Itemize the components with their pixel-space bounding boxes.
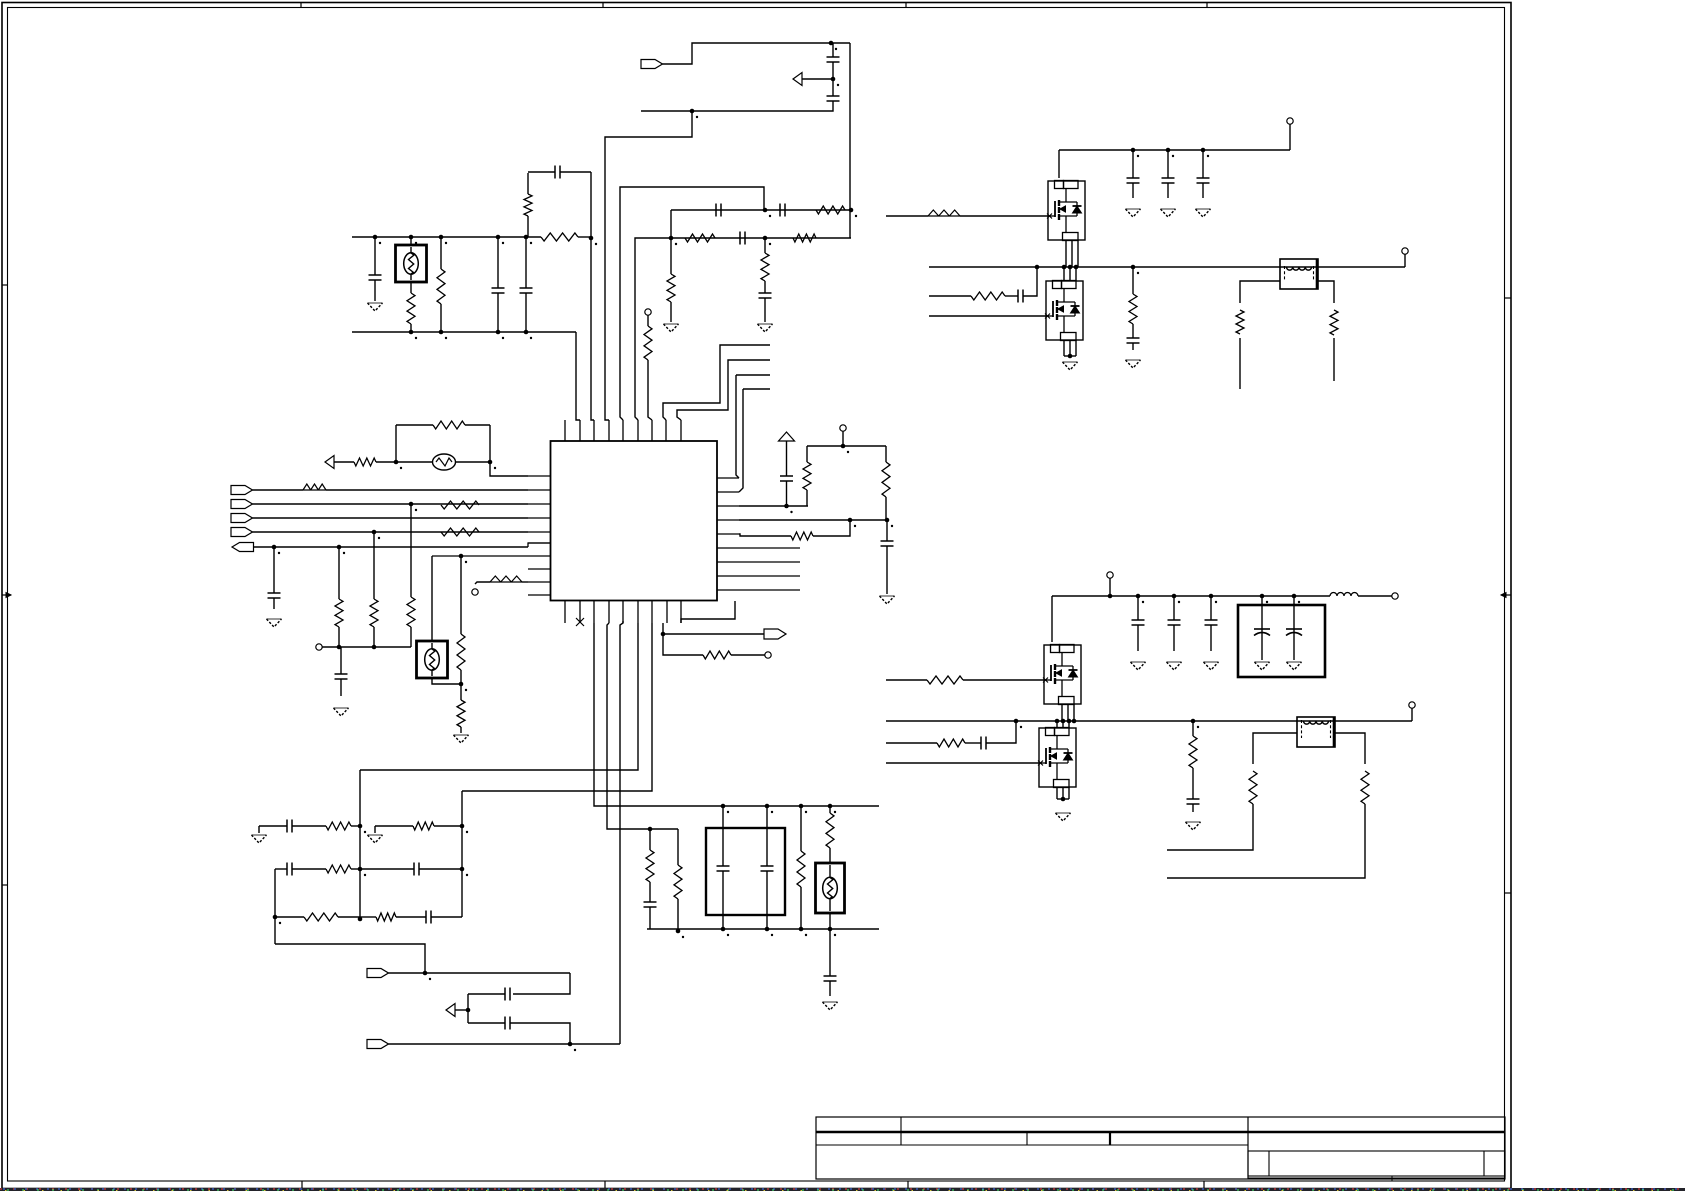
oscillator Y2 bbox=[396, 461, 432, 463]
capacitor C-f6 bbox=[396, 916, 426, 918]
ground dropper x765 bbox=[758, 323, 773, 325]
capacitor C-d2 bbox=[1187, 798, 1200, 800]
resistor R-bus bbox=[541, 233, 578, 241]
t1 secondary right bbox=[1318, 281, 1334, 303]
terminal vin2 bbox=[1107, 572, 1113, 578]
wire stair 3 bbox=[736, 374, 770, 376]
wire to resistor terminal bbox=[663, 634, 703, 655]
capacitor C-c1a with ground bbox=[1132, 150, 1134, 178]
wire row1 upper bbox=[671, 209, 851, 211]
crystal Y3 bbox=[431, 556, 433, 641]
wire mosfet3 source legs bbox=[1061, 704, 1063, 721]
wire stair 4 bbox=[743, 388, 770, 390]
resistor R-f2 bbox=[375, 825, 413, 827]
bead FB-g1 bbox=[928, 210, 960, 216]
wire ic pin to cap node bbox=[739, 505, 808, 507]
wire flag1 to ic bbox=[326, 489, 528, 491]
junction bus nodes bbox=[373, 235, 378, 240]
dropper x671 resistor R3 bbox=[670, 210, 672, 274]
title block inner box bbox=[1248, 1151, 1505, 1176]
junction row1 bbox=[763, 208, 768, 213]
wire ic pin to right bus bbox=[462, 623, 652, 791]
ic U1 top pin stubs bbox=[565, 420, 681, 441]
transformer T2 bbox=[1297, 717, 1335, 747]
junction rail y929 nodes bbox=[721, 927, 726, 932]
wire row2 bbox=[635, 238, 851, 420]
ground R-y3b bbox=[454, 734, 469, 736]
connector flag IN2 bbox=[231, 500, 253, 509]
resistor R-f6 bbox=[360, 916, 376, 918]
resistor R-ob bbox=[703, 651, 731, 659]
ground C-l5 bbox=[334, 707, 349, 709]
capacitor C-c1c with ground bbox=[1202, 150, 1204, 178]
capacitor C-b2 bbox=[497, 237, 499, 288]
wire flag bot2 bbox=[389, 1043, 621, 1045]
mosfet Q3 high side bbox=[1044, 645, 1081, 704]
resistor R-s2 bbox=[677, 829, 679, 865]
frame zone tick marks top bbox=[300, 2, 302, 8]
wire ic pin to crystal node bbox=[432, 555, 528, 557]
title block row line left bbox=[816, 1144, 1248, 1146]
capacitor C-m3 below rail bbox=[829, 929, 831, 976]
title block vertical divider 3 heavy bbox=[1109, 1132, 1111, 1145]
terminal R-t1 bbox=[472, 589, 478, 595]
frame zone tick marks bottom bbox=[301, 1181, 303, 1189]
boot RC conv1: resistor R-bt1 bbox=[929, 295, 971, 297]
gate wire Q2 bbox=[929, 315, 1046, 317]
junction node top rail bbox=[829, 41, 834, 46]
junction flag2 dropper bbox=[409, 502, 414, 507]
terminal vcc rail bbox=[840, 425, 846, 431]
wire osc to ic pin bbox=[490, 425, 528, 476]
rail y929 bbox=[647, 928, 879, 930]
wire mosfet4 source to ground bbox=[1056, 787, 1058, 799]
junction conv1 rail nodes bbox=[1131, 148, 1136, 153]
mosfet Q2 low side bbox=[1046, 281, 1083, 340]
resistor R-b3 above bus bbox=[527, 216, 529, 237]
junction sw rail 2 pads bbox=[1014, 719, 1019, 724]
wire right divider drop bbox=[849, 43, 851, 238]
wire arrow to resistor bbox=[334, 461, 354, 463]
capacitor C-c2c with ground bbox=[1210, 596, 1212, 620]
resistor R-r1 bbox=[816, 206, 845, 214]
resistor R-vr1 bbox=[806, 446, 808, 462]
wire mosfet1 source legs bbox=[1065, 240, 1067, 267]
wire y187 feed bbox=[620, 187, 764, 420]
resistor R-t1l bbox=[1236, 310, 1244, 334]
resistor R-t1 bbox=[522, 581, 528, 583]
resistor R-vr3 bbox=[791, 532, 813, 540]
ground C-b1 bbox=[368, 302, 383, 304]
wire flag bot1 bbox=[389, 972, 571, 974]
wire below crystal bbox=[432, 678, 461, 684]
ground C-l1 bbox=[267, 618, 282, 620]
resistor R-f3 bbox=[326, 865, 351, 873]
capacitor C-c2b with ground bbox=[1173, 596, 1175, 620]
title block vertical divider 2 bbox=[1026, 1132, 1028, 1145]
gate wire Q3 bbox=[886, 679, 927, 681]
crystal Y1 bbox=[410, 237, 412, 245]
dropper conv2: resistor R-d2 bbox=[1192, 721, 1194, 736]
boot RC conv2: resistor R-bt2 bbox=[886, 742, 937, 744]
wire ic pin to rc pair bbox=[607, 623, 678, 829]
terminal vout2b bbox=[1409, 702, 1415, 708]
component box dual polarized caps bbox=[1238, 605, 1325, 677]
ground dropper x671 bbox=[664, 323, 679, 325]
wire stair 1 bbox=[663, 345, 770, 420]
terminal vout2a bbox=[1392, 593, 1398, 599]
resistor R-s1 bbox=[649, 829, 651, 850]
wire resistor to node bbox=[376, 461, 396, 463]
resistor R-t1r bbox=[1330, 310, 1338, 335]
wire flag4 to ic bbox=[253, 531, 529, 533]
wire bottom bus to ic pin x580 bbox=[576, 332, 580, 420]
title block vertical divider 1 bbox=[900, 1117, 902, 1145]
resistor R-l2 bbox=[338, 547, 340, 599]
crystal bus bottom bbox=[352, 331, 576, 333]
rail conv1 top bbox=[1059, 149, 1290, 151]
ic U1 bottom pin stubs bbox=[565, 601, 681, 624]
resistor R-vr2 bbox=[885, 446, 887, 462]
wire ic pin to bus bbox=[360, 623, 638, 770]
boot capacitor C-bt2 bbox=[965, 742, 981, 744]
capacitor C-p1 with ground bbox=[1261, 596, 1263, 660]
title block row line right bbox=[1248, 1150, 1505, 1152]
ground C-vr bbox=[880, 595, 895, 597]
gate wire Q1 bbox=[886, 215, 928, 217]
junction flag4 dropper bbox=[372, 530, 377, 535]
mosfet Q4 low side bbox=[1039, 728, 1076, 787]
resistor R-y3a bbox=[460, 556, 462, 634]
connector flag IN4 bbox=[231, 528, 253, 537]
filter left bus bbox=[274, 869, 276, 944]
terminal vin1 bbox=[1287, 118, 1293, 124]
crystal Y4 bbox=[816, 863, 845, 913]
sw rail conv2 bbox=[886, 720, 1335, 722]
wire to cap row1 bbox=[513, 973, 570, 994]
dropper x765 resistor R4 bbox=[764, 238, 766, 253]
connector flag IN1 bbox=[231, 486, 253, 495]
connector flag OUT5 bbox=[232, 543, 254, 552]
junction flag5 nodes bbox=[272, 545, 277, 550]
capacitor C-s1 bbox=[644, 901, 657, 903]
connector flag BOT2 bbox=[367, 1040, 389, 1049]
wire mosfet2 source to ground bbox=[1063, 340, 1065, 356]
junction row1 right bbox=[849, 208, 854, 213]
frame zone tick marks left bbox=[2, 284, 8, 286]
capacitor C-m1 bbox=[722, 806, 724, 866]
wire flag2 to ic bbox=[253, 503, 529, 505]
resistor R-osc2 feedback loop bbox=[395, 425, 397, 462]
wire ic pin long y520 bbox=[739, 519, 887, 521]
capacitor C-div1 bbox=[832, 43, 834, 57]
crystal bus top bbox=[352, 236, 541, 238]
ground mosfet4 bbox=[1056, 812, 1071, 814]
resistor R-l3 bbox=[373, 532, 375, 599]
wire rc to node bbox=[739, 534, 791, 536]
capacitor C-b1 with ground bbox=[374, 237, 376, 275]
frame zone tick marks right bbox=[1505, 297, 1511, 299]
rail y446 bbox=[807, 445, 886, 447]
junction row2 mid bbox=[763, 236, 768, 241]
resistor R-r2a bbox=[685, 234, 715, 242]
resistor R-in4 bbox=[441, 528, 479, 536]
title block inner box divider left bbox=[1268, 1151, 1270, 1176]
resistor R-r2b bbox=[793, 234, 816, 242]
capacitor C-div2 bbox=[827, 95, 840, 97]
capacitor C-bt2 bbox=[468, 1022, 505, 1024]
ic U1 left pin stubs bbox=[528, 476, 551, 595]
resistor R-b1 below crystal bbox=[410, 282, 412, 293]
connector flag BOT1 bbox=[367, 969, 389, 978]
resistor R-t2l bbox=[1249, 771, 1257, 804]
junction conv2 rail nodes bbox=[1108, 594, 1113, 599]
transformer T1 bbox=[1280, 259, 1318, 289]
wire cap mid node bbox=[832, 62, 834, 79]
title block bottom strip bbox=[1248, 1177, 1505, 1179]
resistor R-l4 bbox=[410, 504, 412, 597]
resistor R-f1 bbox=[326, 822, 351, 830]
wire rail to mosfet3 bbox=[1051, 596, 1053, 642]
wire bottom to ic pin x609 bbox=[605, 111, 692, 420]
resistor R-in2 bbox=[441, 501, 479, 509]
ground dropper conv1 bbox=[1126, 359, 1141, 361]
resistor R-m2 above crystal bbox=[829, 806, 831, 813]
terminal rail left bbox=[316, 644, 322, 650]
wire loop down to ic pin x594 bbox=[591, 172, 594, 420]
title block outline bbox=[816, 1117, 1505, 1179]
connector flag OUT-b bbox=[663, 633, 764, 635]
filter row1 right: ground bbox=[368, 834, 383, 836]
resistor R-t2r bbox=[1361, 771, 1369, 804]
capacitor C-r1a bbox=[715, 204, 717, 217]
terminal pullup R-pu bbox=[645, 309, 651, 315]
junction bottom bus nodes bbox=[409, 330, 414, 335]
filter row2: capacitor C-f3 bbox=[286, 863, 288, 876]
capacitor C-p2 with ground bbox=[1293, 596, 1295, 660]
capacitor C-l5 below rail bbox=[340, 647, 342, 674]
filter row1 left: ground bbox=[252, 834, 267, 836]
ic U1 right pin stubs bbox=[717, 478, 800, 590]
t2 secondary right bbox=[1335, 733, 1365, 764]
ic U1 body bbox=[551, 441, 718, 601]
title block heavy divider line bbox=[816, 1131, 1505, 1133]
rail conv2 top bbox=[1052, 595, 1330, 597]
ground dropper conv2 bbox=[1186, 821, 1201, 823]
t2 secondary left bbox=[1253, 733, 1297, 764]
resistor R-b2 bbox=[440, 237, 442, 269]
component box dual caps bbox=[706, 828, 785, 915]
capacitor C-b3 bbox=[525, 237, 527, 288]
scan noise strip bottom edge bbox=[0, 1188, 1685, 1191]
capacitor C-vcc bbox=[780, 475, 793, 477]
capacitor C-f4 bbox=[360, 868, 414, 870]
wire mosfet4 drain legs bbox=[1056, 721, 1058, 728]
capacitor C5 dropper bbox=[759, 292, 772, 294]
connector flag IN3 bbox=[231, 514, 253, 523]
wire crystal to rail bbox=[829, 913, 831, 929]
wire cap rows vertical bbox=[467, 994, 469, 1023]
junction bus right bbox=[589, 236, 594, 241]
wire rail to mosfet1 bbox=[1058, 150, 1060, 178]
junction divider bottom bbox=[690, 109, 695, 114]
terminal vout1 bbox=[1402, 248, 1408, 254]
wire left bus to flag1 node bbox=[275, 944, 425, 973]
power rail vcc arrow bbox=[779, 432, 795, 441]
capacitor C-c1b with ground bbox=[1167, 150, 1169, 178]
title block main vertical divider bbox=[1247, 1117, 1249, 1179]
no-connect X on bottom pin 1 bbox=[576, 618, 584, 626]
dropper conv1: resistor R-d1 bbox=[1132, 267, 1134, 294]
input arrow osc bbox=[325, 456, 334, 469]
capacitor C-c2a with ground bbox=[1137, 596, 1139, 620]
wire ic pin u-turn bbox=[681, 601, 735, 623]
filter right bus bbox=[461, 791, 463, 917]
sw rail conv1 bbox=[929, 266, 1318, 268]
junction crystal node bbox=[459, 554, 464, 559]
junction row2 left bbox=[669, 236, 674, 241]
ground mosfet2 bbox=[1063, 361, 1078, 363]
wire bot2 to ic pin bbox=[620, 621, 623, 1044]
title block inner box divider right bbox=[1483, 1151, 1485, 1176]
input arrow net-a bbox=[793, 73, 802, 86]
resistor R-y3b bbox=[457, 700, 465, 727]
capacitor C-r1b bbox=[779, 204, 781, 217]
capacitor C-d1 bbox=[1127, 337, 1140, 339]
filter center bus bbox=[359, 770, 361, 919]
wire t2 to terminal bbox=[1335, 720, 1412, 722]
mosfet Q1 high side bbox=[1048, 181, 1085, 240]
wire flag3 to ic bbox=[253, 517, 529, 519]
gate wire Q4 bbox=[886, 762, 1039, 764]
capacitor C-r2 bbox=[739, 232, 741, 245]
capacitor C-l1 with ground bbox=[273, 547, 275, 593]
terminal R-ob bbox=[765, 652, 771, 658]
junction rail y806 nodes bbox=[721, 804, 726, 809]
capacitor C-vr with ground bbox=[886, 520, 888, 541]
resistor R-osc1 bbox=[354, 458, 376, 466]
wire ic pin to rail y806 bbox=[594, 623, 879, 806]
inductor L2 bbox=[1330, 593, 1358, 597]
wire mosfet2 drain legs bbox=[1063, 267, 1065, 281]
bead FB1 bbox=[253, 489, 304, 491]
filter row3: resistor R-f5 bbox=[273, 915, 278, 920]
capacitor C-loop bbox=[528, 171, 555, 173]
capacitor C-m2 bbox=[766, 806, 768, 866]
wire stair 2 bbox=[677, 360, 770, 420]
wire t1 to terminal bbox=[1318, 266, 1405, 268]
junction sw rail pads bbox=[1035, 265, 1040, 270]
t1 secondary left bbox=[1240, 281, 1280, 303]
wire flag5 to ic bbox=[254, 546, 529, 548]
resistor R-m1 bbox=[800, 806, 802, 851]
resistor R-g3 bbox=[927, 676, 963, 684]
wire arrow to divider mid bbox=[802, 78, 833, 80]
wire ic pin to out flag bbox=[662, 623, 664, 634]
wire divider bottom bbox=[641, 101, 833, 111]
input arrow bot bbox=[446, 1004, 455, 1017]
boot capacitor C-bt1 bbox=[1005, 295, 1018, 297]
wire top connector to divider bbox=[663, 43, 851, 64]
ground C-m3 bbox=[823, 1001, 838, 1003]
capacitor C-f1 bbox=[259, 825, 287, 827]
capacitor C-bt1 bbox=[504, 988, 506, 1001]
connector J-top flag bbox=[641, 60, 663, 69]
